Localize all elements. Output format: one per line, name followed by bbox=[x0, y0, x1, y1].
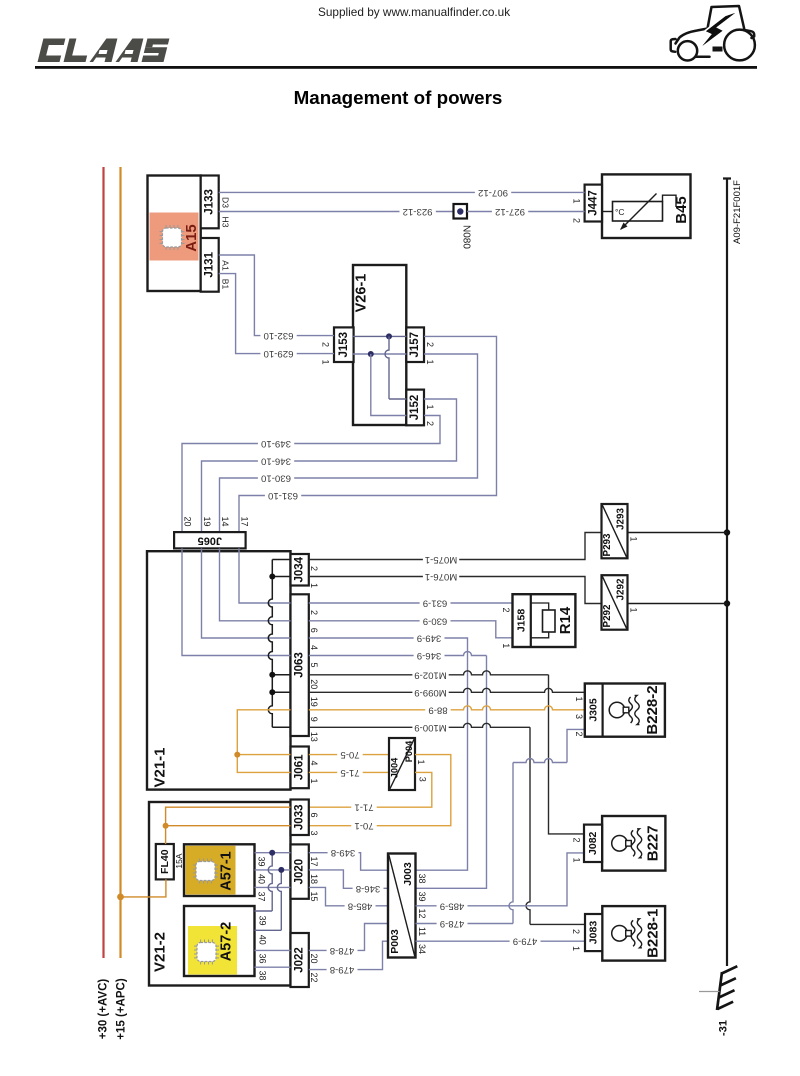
connector J063 bbox=[291, 594, 309, 736]
svg-text:P292: P292 bbox=[602, 604, 613, 627]
wire 630-10 J157-1 to J065-14 bbox=[220, 354, 478, 532]
pin 34 J003 bbox=[417, 944, 427, 954]
svg-text:631-9: 631-9 bbox=[423, 598, 448, 609]
pin 11 J003 bbox=[417, 927, 427, 936]
svg-text:485-8: 485-8 bbox=[348, 900, 373, 911]
svg-text:923-12: 923-12 bbox=[403, 206, 433, 217]
pin 1 J153 bbox=[321, 359, 331, 364]
svg-text:J020: J020 bbox=[294, 859, 306, 885]
pin 1 J447 bbox=[572, 198, 582, 203]
svg-text:1: 1 bbox=[309, 583, 319, 588]
svg-text:2: 2 bbox=[574, 731, 584, 736]
svg-text:36: 36 bbox=[258, 953, 268, 963]
svg-text:22: 22 bbox=[309, 972, 319, 982]
pin 18 J020 bbox=[309, 874, 319, 884]
svg-text:38: 38 bbox=[417, 873, 427, 883]
ground symbol bbox=[699, 966, 737, 1010]
pin 19 J063 bbox=[309, 697, 319, 707]
pin 1 J305 bbox=[574, 696, 584, 701]
wire M102-9 to J082-2 bbox=[309, 669, 584, 834]
svg-text:2: 2 bbox=[425, 421, 435, 426]
pin B1 bbox=[220, 279, 230, 290]
svg-text:A57-1: A57-1 bbox=[219, 851, 235, 891]
svg-text:479-8: 479-8 bbox=[330, 964, 355, 975]
junction dot bus J034-1 bbox=[269, 574, 275, 580]
svg-text:71-1: 71-1 bbox=[354, 802, 373, 813]
svg-text:1: 1 bbox=[309, 778, 319, 783]
svg-text:2: 2 bbox=[309, 566, 319, 571]
svg-text:J004: J004 bbox=[390, 757, 400, 778]
wire +15 feed to FL40 bbox=[121, 807, 291, 897]
thermistor symbol B45 bbox=[602, 194, 676, 231]
+15 supply rail (orange) bbox=[119, 167, 121, 958]
wire V26-1 internal row2 bbox=[353, 335, 406, 337]
pin 39 A57-2 bbox=[258, 915, 268, 925]
module A57-1 bbox=[184, 844, 255, 896]
junction dot A57 40 bbox=[278, 867, 284, 873]
wire 346-9 to J003-39 bbox=[309, 650, 487, 888]
svg-text:J083: J083 bbox=[588, 921, 600, 945]
pin 15 J020 bbox=[309, 891, 319, 901]
svg-text:+15 (+APC): +15 (+APC) bbox=[116, 978, 128, 1040]
pin 2 J034 bbox=[309, 566, 319, 571]
tractor logo icon bbox=[671, 6, 755, 61]
svg-text:11: 11 bbox=[417, 927, 427, 936]
svg-text:A15: A15 bbox=[183, 224, 200, 252]
wire J065-20 to J063-5 internal bbox=[182, 548, 291, 655]
svg-text:H3: H3 bbox=[220, 217, 230, 228]
svg-text:40: 40 bbox=[257, 874, 267, 884]
junction dot bus J063-19 bbox=[269, 689, 275, 695]
junction dot +15 feed bbox=[117, 894, 124, 901]
svg-text:5: 5 bbox=[309, 662, 319, 667]
pin 2 J157 bbox=[425, 342, 435, 347]
svg-text:2: 2 bbox=[425, 342, 435, 347]
wire 631-10 J157-2 to J065-17 bbox=[239, 336, 497, 532]
pin 22 J022 bbox=[309, 972, 319, 982]
svg-text:71-5: 71-5 bbox=[340, 767, 359, 778]
wire M075-1 bbox=[309, 533, 602, 566]
svg-text:2: 2 bbox=[309, 610, 319, 615]
wire 478-9 J003-11 to J305-2 bbox=[416, 729, 585, 929]
pin 1 J157 bbox=[425, 359, 435, 364]
wire 632-10 bbox=[219, 255, 334, 341]
svg-text:18: 18 bbox=[309, 874, 319, 884]
CLAAS logo bbox=[38, 39, 170, 63]
pin 38 A57-2 bbox=[258, 970, 268, 980]
svg-text:632-10: 632-10 bbox=[264, 330, 294, 341]
connector J152 bbox=[406, 390, 424, 426]
sensor B227 bbox=[584, 816, 665, 871]
wire V21-1 internal orange bbox=[237, 710, 290, 773]
wire 346-10 J152-1 to J065-19 bbox=[202, 399, 457, 532]
pin 1 J152 bbox=[425, 404, 435, 409]
pin 17 J020 bbox=[309, 856, 319, 866]
svg-text:J034: J034 bbox=[294, 556, 306, 582]
junction dot FL40 net bbox=[163, 823, 169, 829]
svg-text:3: 3 bbox=[309, 830, 319, 835]
wire V26-1 internal row1 bbox=[353, 353, 406, 355]
svg-text:349-10: 349-10 bbox=[261, 438, 291, 449]
ground bus -31 bbox=[723, 179, 731, 967]
svg-text:478-8: 478-8 bbox=[330, 945, 355, 956]
module A57-2 bbox=[184, 906, 255, 976]
ECU V21-1 bbox=[147, 551, 291, 789]
wire J065-17 to J063-2 internal bbox=[239, 548, 291, 603]
svg-text:1: 1 bbox=[571, 857, 581, 862]
svg-text:346-9: 346-9 bbox=[417, 650, 442, 661]
svg-text:4: 4 bbox=[309, 760, 319, 765]
svg-text:1: 1 bbox=[629, 536, 639, 541]
svg-text:P004: P004 bbox=[404, 740, 414, 762]
pin 12 J003 bbox=[417, 908, 427, 918]
connector J020 bbox=[291, 844, 309, 898]
pin 3 J004 bbox=[417, 777, 427, 782]
wire 631-9 bbox=[309, 598, 513, 609]
svg-text:15: 15 bbox=[309, 891, 319, 901]
node N080 bbox=[454, 204, 472, 249]
svg-text:2: 2 bbox=[501, 607, 511, 612]
pin 2 J083 bbox=[571, 929, 581, 934]
ECU A15 bbox=[148, 176, 201, 292]
pin 1 P292 bbox=[629, 607, 639, 612]
svg-text:3: 3 bbox=[574, 714, 584, 719]
svg-text:1: 1 bbox=[416, 759, 426, 764]
svg-text:6: 6 bbox=[309, 812, 319, 817]
svg-text:2: 2 bbox=[571, 837, 581, 842]
wire V21-1 internal bus bbox=[268, 560, 290, 728]
frame label A09-F21F001F bbox=[732, 180, 743, 244]
pin 1 P293 bbox=[629, 536, 639, 541]
svg-text:FL40: FL40 bbox=[159, 849, 171, 874]
wire J065-19 to J063-4 internal bbox=[202, 548, 291, 638]
svg-text:V26-1: V26-1 bbox=[354, 274, 370, 313]
pin 1 J004 bbox=[416, 759, 426, 764]
svg-text:37: 37 bbox=[257, 891, 267, 901]
wire 479-9 J003-34 to J083-1 bbox=[416, 936, 586, 947]
svg-text:20: 20 bbox=[309, 953, 319, 963]
wire M100-9 to J083-2 bbox=[309, 722, 585, 925]
svg-text:V21-1: V21-1 bbox=[152, 747, 169, 787]
svg-text:J305: J305 bbox=[588, 698, 600, 722]
pin 2 J305 bbox=[574, 731, 584, 736]
svg-text:J447: J447 bbox=[587, 190, 599, 216]
junction dot bus J063-20 bbox=[269, 672, 275, 678]
svg-text:N080: N080 bbox=[461, 225, 472, 249]
svg-text:4: 4 bbox=[309, 645, 319, 650]
+30 (+AVC) label bbox=[98, 979, 110, 1040]
wire P293 to ground bus bbox=[628, 532, 728, 534]
wire 927-12 bbox=[467, 206, 585, 217]
svg-text:485-9: 485-9 bbox=[440, 900, 465, 911]
svg-text:20: 20 bbox=[309, 679, 319, 689]
connector P003/J003 bbox=[388, 854, 416, 958]
connector J061 bbox=[291, 747, 309, 789]
svg-text:6: 6 bbox=[309, 628, 319, 633]
pin 2 J152 bbox=[425, 421, 435, 426]
pin 4 J063 bbox=[309, 645, 319, 650]
svg-text:346-8: 346-8 bbox=[356, 883, 381, 894]
junction dot ground P292 bbox=[724, 600, 730, 606]
pin 38 J003 bbox=[417, 873, 427, 883]
svg-text:39: 39 bbox=[417, 891, 427, 901]
wire A57-2-36 row bbox=[255, 949, 291, 951]
svg-text:12: 12 bbox=[417, 908, 427, 918]
svg-text:Management of powers: Management of powers bbox=[294, 87, 503, 108]
svg-text:88-9: 88-9 bbox=[428, 704, 447, 715]
svg-text:P003: P003 bbox=[389, 929, 401, 954]
connector J034 bbox=[291, 554, 309, 586]
pin 9 J063 bbox=[309, 717, 319, 722]
svg-text:V21-2: V21-2 bbox=[152, 932, 169, 972]
pin 3 J033 bbox=[309, 830, 319, 835]
svg-text:J065: J065 bbox=[198, 534, 222, 546]
ECU V21-2 bbox=[149, 802, 291, 986]
wire A57-2-40 link bbox=[255, 870, 282, 930]
wire 479-8 bbox=[309, 941, 388, 975]
connector J022 bbox=[291, 933, 309, 987]
svg-text:P293: P293 bbox=[602, 533, 613, 556]
svg-text:20: 20 bbox=[183, 516, 193, 526]
svg-text:19: 19 bbox=[202, 516, 212, 526]
pin 2 J158 bbox=[501, 607, 511, 612]
svg-text:J061: J061 bbox=[294, 754, 306, 780]
wire 346-8 bbox=[309, 870, 388, 894]
wire 71-1 P004 to J033-6 bbox=[309, 772, 432, 812]
svg-text:907-12: 907-12 bbox=[478, 187, 508, 198]
junction dot orange J061-4 bbox=[234, 752, 240, 758]
svg-text:630-9: 630-9 bbox=[423, 615, 448, 626]
title bbox=[294, 87, 503, 108]
svg-text:M076-1: M076-1 bbox=[425, 571, 458, 582]
pin 20 J063 bbox=[309, 679, 319, 689]
wire M076-1 bbox=[309, 571, 602, 604]
pin 40 A57-2 bbox=[258, 935, 268, 945]
svg-text:1: 1 bbox=[425, 404, 435, 409]
wire 70-1 P004 to J033-3 bbox=[309, 755, 451, 832]
svg-text:J003: J003 bbox=[402, 862, 414, 886]
pin 2 J153 bbox=[321, 342, 331, 347]
pin 3 J305 bbox=[574, 714, 584, 719]
svg-text:2: 2 bbox=[571, 929, 581, 934]
svg-text:A57-2: A57-2 bbox=[219, 922, 235, 962]
label 15A bbox=[174, 853, 184, 868]
junction dot A57 39 bbox=[269, 850, 275, 856]
svg-text:3: 3 bbox=[417, 777, 427, 782]
svg-text:-31: -31 bbox=[718, 1020, 730, 1036]
wire J065-14 to J063-6 internal bbox=[220, 548, 291, 620]
wire V26-1 internal to J152-2 bbox=[371, 354, 407, 416]
wire 88-9 to J305-3 bbox=[309, 704, 585, 715]
wire 349-9 to J003-38 bbox=[309, 633, 468, 871]
svg-text:34: 34 bbox=[417, 944, 427, 954]
wire A57-2-38 row bbox=[255, 966, 291, 968]
wire 478-8 bbox=[309, 924, 388, 956]
svg-text:J158: J158 bbox=[516, 609, 528, 633]
wire 349-8 bbox=[309, 847, 388, 870]
wire 485-9 J003-12 to J082-1 bbox=[416, 853, 585, 911]
svg-text:349-9: 349-9 bbox=[417, 633, 442, 644]
wire P292 to ground bus bbox=[628, 603, 728, 605]
svg-text:J063: J063 bbox=[294, 652, 306, 678]
connector J153 bbox=[334, 327, 354, 362]
pin 4 J061 bbox=[309, 760, 319, 765]
svg-text:M075-1: M075-1 bbox=[425, 554, 458, 565]
resistor R14 bbox=[513, 594, 576, 647]
svg-text:D3: D3 bbox=[220, 197, 230, 208]
valve module V26-1 bbox=[353, 265, 406, 425]
pin D3 bbox=[220, 197, 230, 208]
svg-text:J131: J131 bbox=[204, 251, 216, 277]
pin 37 A57-1 bbox=[257, 891, 267, 901]
wire M099-9 to J305-1 bbox=[309, 687, 585, 698]
svg-text:70-1: 70-1 bbox=[354, 820, 373, 831]
svg-text:J157: J157 bbox=[409, 332, 421, 358]
svg-text:629-10: 629-10 bbox=[264, 348, 294, 359]
pin 2 J063 bbox=[309, 610, 319, 615]
sensor B228-1 bbox=[585, 906, 665, 961]
wire 629-10 bbox=[219, 274, 334, 360]
wire 349-10 J152-2 to J065-20 bbox=[182, 416, 440, 533]
wire 923-12 bbox=[219, 206, 454, 217]
svg-text:J033: J033 bbox=[294, 805, 306, 831]
pin 39 A57-1 bbox=[257, 856, 267, 866]
pin 1 J083 bbox=[571, 946, 581, 951]
svg-text:J082: J082 bbox=[587, 831, 599, 855]
svg-text:346-10: 346-10 bbox=[261, 456, 291, 467]
wire V26-1 internal to J152-1 bbox=[385, 336, 406, 399]
svg-text:B1: B1 bbox=[220, 279, 230, 290]
wire A57-1-37 row bbox=[255, 886, 291, 888]
svg-text:B228-1: B228-1 bbox=[644, 909, 661, 958]
svg-text:M099-9: M099-9 bbox=[414, 687, 447, 698]
connector J131 bbox=[201, 238, 219, 292]
svg-text:1: 1 bbox=[574, 696, 584, 701]
svg-text:40: 40 bbox=[258, 935, 268, 945]
svg-text:J153: J153 bbox=[338, 332, 350, 358]
connector J447 bbox=[585, 185, 602, 222]
svg-text:R14: R14 bbox=[557, 606, 574, 634]
wire 907-12 bbox=[219, 187, 585, 198]
svg-text:19: 19 bbox=[309, 697, 319, 707]
svg-text:+30 (+AVC): +30 (+AVC) bbox=[98, 979, 110, 1040]
pin 1 J034 bbox=[309, 583, 319, 588]
fuse FL40 bbox=[156, 844, 174, 879]
svg-text:J133: J133 bbox=[204, 189, 216, 215]
wire A57-2-39 link bbox=[255, 853, 273, 911]
connector J065 bbox=[174, 532, 246, 548]
wire 71-5 bbox=[309, 767, 389, 778]
pin 2 J447 bbox=[572, 218, 582, 223]
svg-text:630-10: 630-10 bbox=[261, 473, 291, 484]
svg-text:1: 1 bbox=[425, 359, 435, 364]
connector J004/P004 bbox=[389, 738, 415, 790]
pin 19 J065 bbox=[202, 516, 212, 526]
header supplied-by text bbox=[318, 5, 510, 19]
connector J033 bbox=[291, 800, 309, 836]
logo underline bbox=[35, 66, 757, 69]
pin 20 J065 bbox=[183, 516, 193, 526]
svg-text:17: 17 bbox=[240, 516, 250, 526]
-31 label bbox=[718, 1020, 730, 1036]
sensor B228-2 bbox=[585, 684, 665, 737]
wire 485-8 bbox=[309, 887, 388, 911]
svg-text:349-8: 349-8 bbox=[331, 847, 356, 858]
sensor B45 bbox=[602, 174, 691, 238]
pin 39 J003 bbox=[417, 891, 427, 901]
svg-text:1: 1 bbox=[629, 607, 639, 612]
svg-text:2: 2 bbox=[572, 218, 582, 223]
svg-text:A09-F21F001F: A09-F21F001F bbox=[732, 180, 743, 244]
svg-text:478-9: 478-9 bbox=[440, 918, 465, 929]
svg-text:13: 13 bbox=[309, 732, 319, 742]
svg-text:1: 1 bbox=[571, 946, 581, 951]
svg-text:479-9: 479-9 bbox=[513, 936, 538, 947]
+15 (+APC) label bbox=[116, 978, 128, 1040]
pin 1 J061 bbox=[309, 778, 319, 783]
svg-text:J022: J022 bbox=[294, 947, 306, 973]
pin A1 bbox=[220, 260, 230, 271]
pin 2 J082 bbox=[571, 837, 581, 842]
junction dot ground P293 bbox=[724, 529, 730, 535]
svg-text:M100-9: M100-9 bbox=[414, 722, 447, 733]
pin 36 A57-2 bbox=[258, 953, 268, 963]
svg-text:17: 17 bbox=[309, 856, 319, 866]
svg-text:39: 39 bbox=[258, 915, 268, 925]
pin 14 J065 bbox=[220, 516, 230, 526]
svg-text:°C: °C bbox=[615, 207, 625, 217]
svg-text:A1: A1 bbox=[220, 260, 230, 271]
svg-text:39: 39 bbox=[257, 856, 267, 866]
+30 supply rail (red) bbox=[102, 167, 104, 958]
pin 13 J063 bbox=[309, 732, 319, 742]
svg-text:1: 1 bbox=[501, 643, 511, 648]
wire 630-9 bbox=[309, 615, 513, 638]
pin 6 J063 bbox=[309, 628, 319, 633]
svg-text:9: 9 bbox=[309, 717, 319, 722]
svg-text:Supplied by www.manualfinder.c: Supplied by www.manualfinder.co.uk bbox=[318, 5, 510, 19]
svg-text:2: 2 bbox=[321, 342, 331, 347]
svg-text:J152: J152 bbox=[409, 395, 421, 421]
svg-text:927-12: 927-12 bbox=[495, 206, 525, 217]
connector J157 bbox=[406, 327, 424, 362]
pin 1 J082 bbox=[571, 857, 581, 862]
pin 17 J065 bbox=[240, 516, 250, 526]
svg-text:631-10: 631-10 bbox=[268, 490, 298, 501]
svg-text:M102-9: M102-9 bbox=[414, 669, 447, 680]
svg-text:B227: B227 bbox=[644, 825, 661, 861]
junction dot V26-1 a bbox=[386, 333, 392, 339]
svg-text:14: 14 bbox=[220, 516, 230, 526]
svg-text:1: 1 bbox=[321, 359, 331, 364]
svg-text:15A: 15A bbox=[174, 853, 184, 868]
connector P292/J292 bbox=[602, 575, 628, 630]
pin 6 J033 bbox=[309, 812, 319, 817]
svg-text:70-5: 70-5 bbox=[340, 749, 359, 760]
pin H3 bbox=[220, 217, 230, 228]
pin 5 J063 bbox=[309, 662, 319, 667]
svg-text:B228-2: B228-2 bbox=[644, 685, 661, 734]
wire A57-1-39 row bbox=[255, 852, 291, 854]
wire 70-5 bbox=[309, 749, 389, 760]
connector J133 bbox=[201, 176, 219, 229]
svg-text:1: 1 bbox=[572, 198, 582, 203]
pin 40 A57-1 bbox=[257, 874, 267, 884]
pin 20 J022 bbox=[309, 953, 319, 963]
connector P293/J293 bbox=[602, 504, 628, 558]
svg-text:J292: J292 bbox=[616, 578, 627, 600]
svg-text:J293: J293 bbox=[616, 508, 627, 530]
